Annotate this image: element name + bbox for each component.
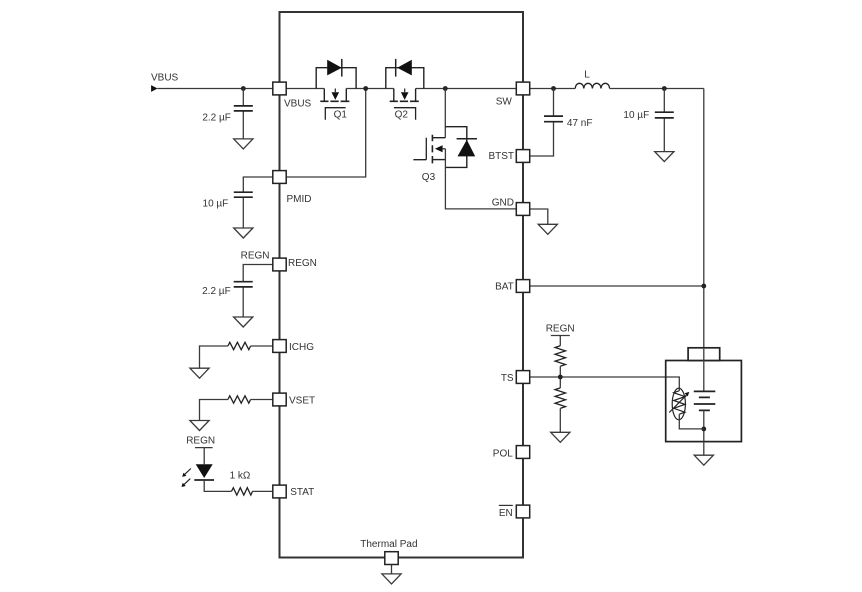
VBUS input arrow — [151, 85, 158, 92]
svg-text:REGN: REGN — [546, 323, 575, 334]
svg-text:REGN: REGN — [186, 436, 215, 447]
pin BAT — [516, 280, 529, 293]
svg-text:BAT: BAT — [495, 281, 514, 292]
wire GND pin to ground — [530, 209, 548, 224]
svg-text:47 nF: 47 nF — [567, 118, 593, 129]
node TS divider junction — [558, 375, 563, 380]
svg-text:GND: GND — [492, 198, 514, 209]
svg-text:L: L — [584, 70, 590, 81]
resistor R_VSET — [228, 396, 251, 403]
wire SW node to C4 and BTST — [530, 89, 554, 157]
wire to C1 — [242, 89, 244, 139]
wire battery minus to ground — [703, 410, 705, 455]
capacitor C3 2.2uF — [234, 282, 253, 287]
svg-text:Q1: Q1 — [334, 109, 348, 120]
pin Thermal Pad — [385, 552, 398, 565]
wire thermal pad to ground — [391, 564, 393, 574]
wire internal rail VBUS pin to Q1 — [286, 88, 324, 90]
resistor R_STAT 1k — [232, 488, 253, 495]
svg-text:10 µF: 10 µF — [623, 110, 649, 121]
LED emission arrow 1 — [184, 469, 191, 475]
REGN rail tick (TS) — [551, 335, 570, 337]
capacitor C1 2.2uF — [234, 106, 253, 111]
ground (ICHG) — [190, 368, 209, 378]
resistor R_ICHG — [228, 342, 251, 349]
wire internal rail Q2 to SW pin — [416, 88, 517, 90]
svg-text:10 µF: 10 µF — [203, 198, 229, 209]
wire R_TS1 to TS node — [559, 366, 561, 388]
svg-text:PMID: PMID — [287, 194, 312, 205]
svg-text:BTST: BTST — [488, 151, 514, 162]
ground (VSET) — [190, 421, 209, 431]
pin EN — [516, 505, 529, 518]
REGN rail tick (LED) — [195, 447, 213, 449]
wire right rail down to battery — [703, 89, 705, 348]
wire PMID internal riser — [286, 89, 366, 178]
wire LED to resistor to STAT — [204, 480, 273, 491]
node VBUS cap tap — [241, 86, 246, 91]
ground (thermal pad) — [382, 574, 401, 584]
ground (battery) — [694, 455, 713, 465]
svg-text:EN: EN — [499, 508, 513, 519]
resistor R_TS2 — [555, 388, 565, 408]
svg-text:VBUS: VBUS — [284, 98, 312, 109]
ground (10uF out) — [655, 152, 674, 162]
node 10uF out tap — [662, 86, 667, 91]
battery pack box — [666, 361, 742, 442]
pin POL — [516, 446, 529, 459]
wire TS pin to battery — [530, 377, 680, 391]
wire out node to C5 — [663, 89, 665, 152]
pin SW — [516, 82, 529, 95]
wire SW to inductor — [530, 88, 576, 90]
pin ICHG — [273, 340, 286, 353]
svg-text:STAT: STAT — [290, 487, 314, 498]
inductor L — [575, 83, 609, 88]
wire inductor to corner — [610, 88, 704, 90]
LED emission arrow 2 — [184, 479, 191, 485]
svg-text:VBUS: VBUS — [151, 72, 179, 83]
wire REGN tick to R_TS1 — [559, 336, 561, 346]
ground (TS divider) — [551, 432, 570, 442]
svg-text:POL: POL — [493, 449, 513, 460]
node PMID rail tap — [363, 86, 368, 91]
transistor Q2 (with body diode) — [386, 59, 424, 120]
pin TS — [516, 371, 529, 384]
capacitor C4 47nF — [544, 116, 563, 122]
wire thermistor bottom — [679, 414, 704, 429]
transistor Q3 (with body diode) — [413, 127, 477, 168]
node 47nF tap — [551, 86, 556, 91]
node Q3 rail tap — [443, 86, 448, 91]
svg-text:2.2 µF: 2.2 µF — [202, 112, 231, 123]
svg-text:Thermal Pad: Thermal Pad — [360, 539, 417, 550]
pin VSET — [273, 393, 286, 406]
pin PMID — [273, 171, 286, 184]
wire REGN to C3 — [243, 265, 273, 318]
wire VSET — [200, 400, 273, 421]
LED D1 — [196, 464, 213, 478]
ground (REGN cap) — [234, 317, 253, 327]
pin STAT — [273, 485, 286, 498]
capacitor C2 10uF — [234, 192, 253, 197]
ground (GND pin) — [538, 224, 557, 234]
resistor R_TS1 — [555, 346, 565, 366]
svg-text:VSET: VSET — [289, 395, 315, 406]
wire R_TS2 to ground — [559, 408, 561, 432]
ground (VBUS cap) — [234, 139, 253, 149]
pin VBUS — [273, 82, 286, 95]
pin BTST — [516, 150, 529, 163]
capacitor C5 10uF — [655, 112, 674, 118]
transistor Q1 (with body diode) — [316, 59, 356, 120]
IC U1 outline — [280, 12, 524, 558]
svg-text:Q3: Q3 — [422, 172, 436, 183]
ground (PMID cap) — [234, 228, 253, 238]
wire Q3 source to GND pin — [445, 149, 516, 209]
node BAT junction — [701, 284, 706, 289]
svg-text:TS: TS — [501, 373, 514, 384]
wire ICHG — [200, 346, 273, 368]
wire battery plus — [703, 348, 705, 392]
wire internal rail Q1 to Q2 — [346, 88, 394, 90]
battery cell BT1 — [694, 391, 716, 410]
svg-text:ICHG: ICHG — [289, 342, 314, 353]
pin GND — [516, 203, 529, 216]
wire BAT pin to rail — [530, 285, 704, 287]
svg-text:REGN: REGN — [241, 250, 270, 261]
pin REGN — [273, 258, 286, 271]
svg-text:REGN: REGN — [288, 258, 317, 269]
wire PMID to C2 — [243, 177, 272, 228]
svg-text:1 kΩ: 1 kΩ — [230, 470, 251, 481]
wire VBUS input — [157, 88, 272, 90]
node battery minus junction — [701, 427, 706, 432]
svg-text:2.2 µF: 2.2 µF — [202, 286, 231, 297]
wire rail to Q3 drain — [444, 89, 446, 138]
svg-text:Q2: Q2 — [395, 109, 409, 120]
svg-text:SW: SW — [496, 97, 513, 108]
battery pack tab — [688, 348, 720, 361]
wire REGN tick to LED — [203, 448, 205, 465]
thermistor RT — [669, 388, 689, 420]
